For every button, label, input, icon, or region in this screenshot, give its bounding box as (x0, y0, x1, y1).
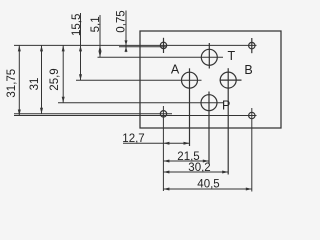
wire bottom-right hole row line (14, 115, 257, 117)
wire T row line (98, 56, 224, 58)
mounting hole top-left (160, 38, 166, 53)
wire bottom-left hole row line (14, 113, 172, 115)
dimension 12,7 (123, 142, 190, 145)
dimension 31 (40, 45, 43, 113)
port B (220, 68, 242, 174)
wire A row line (76, 79, 202, 81)
svg-text:12,7: 12,7 (122, 133, 144, 145)
wire bottom-left hole extension (162, 106, 164, 191)
svg-text:25,9: 25,9 (49, 68, 61, 90)
wire top hole row line (14, 44, 257, 46)
dimension 31,75 (18, 45, 21, 115)
svg-text:T: T (227, 49, 235, 63)
wire bottom-right hole extension (251, 108, 253, 192)
dimension 0,75 (125, 11, 128, 53)
mounting hole bottom-right (249, 112, 255, 118)
wire P row line (58, 102, 223, 104)
svg-text:P: P (222, 99, 230, 113)
svg-text:A: A (171, 62, 180, 76)
dimension 25,9 (62, 45, 65, 102)
wire 0.75 offset stub line (119, 46, 166, 48)
port T (201, 43, 217, 69)
valve body rectangle (140, 31, 281, 128)
svg-text:31,75: 31,75 (6, 69, 18, 98)
port P (201, 92, 217, 164)
svg-text:30,2: 30,2 (188, 162, 210, 174)
mounting hole top-right (249, 38, 255, 53)
port A (182, 68, 198, 146)
svg-text:15,5: 15,5 (71, 14, 83, 36)
dimension 15,5 (79, 13, 82, 80)
dimension 30,2 (163, 171, 228, 174)
dimension 5,1 (99, 15, 102, 57)
svg-text:31: 31 (29, 78, 41, 91)
svg-text:B: B (244, 63, 252, 77)
svg-text:0,75: 0,75 (116, 10, 128, 32)
mounting hole bottom-left (160, 111, 166, 117)
dimension 40,5 (163, 188, 251, 191)
svg-text:5,1: 5,1 (90, 16, 102, 32)
dimension 21,5 (163, 160, 208, 163)
svg-text:40,5: 40,5 (197, 179, 219, 191)
